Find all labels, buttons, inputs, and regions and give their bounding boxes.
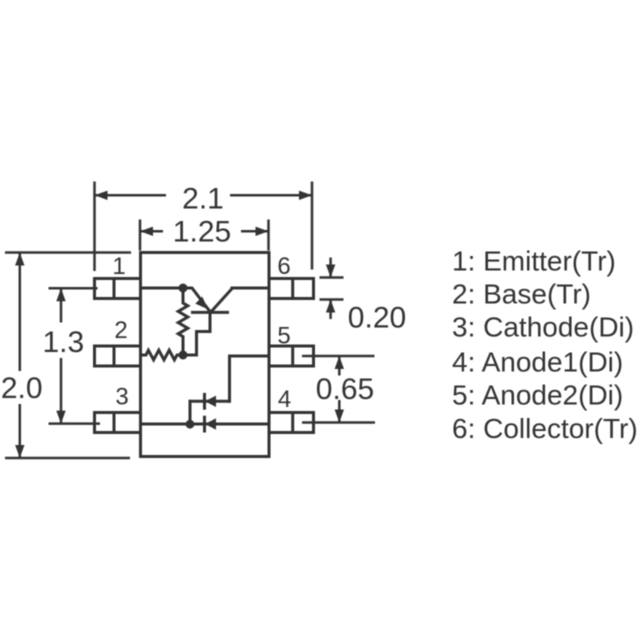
- dim 0.20 top arrow: [326, 265, 335, 278]
- node A: [179, 284, 188, 293]
- dim 1.25 left tick: [139, 220, 142, 251]
- dim 1.3 line: [60, 288, 63, 423]
- dim 1.3 top tick: [49, 287, 98, 290]
- diode D2 line: [190, 400, 230, 403]
- dim 0.20 arrow lines: [329, 258, 332, 320]
- diode D1 triangle: [205, 418, 216, 429]
- dim 2.1 right tick: [311, 182, 314, 270]
- svg-text:3: 3: [115, 384, 128, 411]
- dim 2.1 right arrow: [299, 191, 312, 200]
- dim 0.20 bottom arrow: [326, 300, 335, 313]
- svg-text:5: Anode2(Di): 5: Anode2(Di): [452, 380, 623, 411]
- svg-text:2.1: 2.1: [182, 183, 224, 216]
- dim 1.25 line: [140, 230, 269, 233]
- svg-text:5: 5: [277, 323, 290, 350]
- svg-text:1: 1: [112, 253, 125, 280]
- svg-text:0.65: 0.65: [316, 373, 374, 406]
- dim 2.0 bottom arrow: [15, 445, 24, 458]
- svg-text:6: 6: [277, 253, 290, 280]
- svg-text:1: Emitter(Tr): 1: Emitter(Tr): [452, 246, 616, 277]
- wire collector to pin 6: [232, 287, 269, 290]
- dim 1.3 top arrow: [56, 288, 65, 301]
- package body: [141, 253, 270, 457]
- diode D1 cathode bar: [203, 417, 206, 431]
- dim 0.65 bottom arrow: [335, 410, 344, 423]
- dim 2.0 top arrow: [15, 253, 24, 266]
- svg-text:4: Anode1(Di): 4: Anode1(Di): [452, 347, 623, 378]
- dim 1.25 right tick: [267, 220, 270, 251]
- dim 0.65 top arrow: [335, 356, 344, 369]
- svg-text:4: 4: [278, 386, 291, 413]
- svg-text:1.3: 1.3: [42, 326, 84, 359]
- svg-text:0.20: 0.20: [348, 302, 406, 335]
- svg-text:6: Collector(Tr): 6: Collector(Tr): [452, 413, 638, 444]
- wire pin1 to node A: [141, 287, 184, 290]
- pin 1 lead: [95, 279, 141, 299]
- resistor R1: [178, 288, 188, 355]
- svg-text:1.25: 1.25: [173, 215, 231, 248]
- dim 1.25 left arrow: [140, 227, 153, 236]
- node B: [179, 351, 188, 360]
- dim 0.20 top tick: [320, 276, 344, 279]
- diode D2 triangle: [205, 396, 216, 407]
- dim 2.0 line: [19, 253, 22, 459]
- pin 4 lead: [269, 413, 314, 433]
- pin 3 lead: [95, 413, 141, 433]
- node C: [186, 420, 195, 429]
- dim 2.0 bottom tick: [5, 457, 130, 460]
- svg-text:3: Cathode(Di): 3: Cathode(Di): [452, 311, 634, 342]
- transistor Q1 emitter: [183, 288, 210, 311]
- pin 2 lead: [95, 346, 141, 366]
- dim 0.65 bottom tick: [302, 421, 375, 424]
- dim 0.20 bottom tick: [320, 298, 344, 301]
- wire base step: [183, 312, 210, 355]
- svg-text:2.0: 2.0: [1, 372, 43, 405]
- dim 1.3 bottom tick: [49, 422, 101, 425]
- svg-text:2: 2: [114, 317, 127, 344]
- dim 2.1 line: [95, 194, 313, 197]
- pin 5 lead: [269, 346, 314, 366]
- pin 6 lead: [269, 279, 314, 299]
- diode D2 cathode bar: [203, 394, 206, 408]
- dim 0.65 arrow lines: [338, 356, 341, 423]
- wire pin3 to pin4 bottom rail: [141, 423, 270, 426]
- dim 1.25 right arrow: [256, 227, 269, 236]
- wire node C to diode D2: [189, 401, 192, 424]
- svg-text:2: Base(Tr): 2: Base(Tr): [452, 278, 591, 309]
- transistor Q1 collector: [211, 288, 233, 312]
- dim 2.1 left arrow: [95, 191, 108, 200]
- transistor Q1 emitter arrow: [195, 297, 208, 310]
- dim 2.1 left tick: [93, 182, 96, 272]
- dim 0.65 top tick: [302, 355, 375, 358]
- wire diode D2 to pin 5: [230, 356, 270, 401]
- resistor R2: [141, 350, 184, 360]
- dim 2.0 top tick: [5, 251, 131, 254]
- dim 1.3 bottom arrow: [56, 411, 65, 424]
- transistor Q1 base bar: [193, 311, 228, 314]
